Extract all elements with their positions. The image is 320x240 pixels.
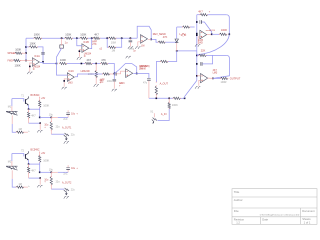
svg-text:x2: x2 bbox=[99, 47, 102, 50]
diode D1 bbox=[175, 39, 178, 42]
svg-text:10u: 10u bbox=[49, 169, 54, 172]
wire to cap bbox=[110, 73, 114, 75]
svg-text:BC549C: BC549C bbox=[31, 149, 40, 152]
svg-text:A_OUT1: A_OUT1 bbox=[62, 127, 72, 130]
junction op5 out bbox=[150, 39, 152, 41]
svg-text:1M: 1M bbox=[139, 68, 142, 71]
ground block1 bbox=[39, 123, 41, 130]
capacitor C1 feedback op1 bbox=[41, 51, 45, 53]
wire op7 plus ground bbox=[199, 80, 201, 85]
rect loop with resistor bbox=[177, 26, 183, 28]
svg-text:22u: 22u bbox=[56, 126, 61, 129]
piezo leads bbox=[11, 99, 13, 107]
svg-text:100K: 100K bbox=[43, 104, 49, 108]
svg-text:4K7: 4K7 bbox=[31, 114, 36, 117]
wire op3 plus ground bbox=[64, 79, 67, 87]
svg-text:+9V: +9V bbox=[41, 153, 46, 155]
wire op7 out bbox=[208, 77, 213, 79]
ground bbox=[62, 87, 67, 89]
ground block2 bbox=[39, 178, 41, 185]
svg-text:Title: Title bbox=[234, 190, 240, 194]
capacitor 10u out block2 bbox=[67, 170, 69, 173]
wire stage B right corner bbox=[213, 55, 229, 78]
svg-text:REV_SEND: REV_SEND bbox=[153, 33, 166, 36]
svg-text:1M: 1M bbox=[18, 183, 21, 186]
junction op4 out bbox=[136, 73, 138, 75]
svg-text:File: File bbox=[234, 209, 239, 213]
svg-text:FWD: FWD bbox=[8, 61, 14, 63]
pin mark bbox=[155, 81, 158, 84]
wire op6 plus ground bbox=[198, 37, 200, 44]
wire op5 feedback loop bbox=[137, 26, 151, 39]
op-amp U2B bbox=[200, 30, 207, 39]
vertical bus reverb return bbox=[155, 86, 157, 95]
svg-text:100K: 100K bbox=[65, 33, 71, 37]
svg-text:1.2: 1.2 bbox=[236, 221, 240, 225]
op-amp U1A bbox=[32, 58, 39, 67]
bus junctions bbox=[196, 21, 198, 23]
svg-text:100n: 100n bbox=[107, 80, 113, 83]
title block row lines bbox=[232, 196, 317, 198]
svg-text:D: D bbox=[84, 55, 86, 58]
svg-text:100K: 100K bbox=[43, 159, 49, 163]
ground jack block2 bbox=[64, 197, 69, 199]
svg-text:LM3: LM3 bbox=[120, 82, 125, 85]
svg-text:100K: 100K bbox=[30, 41, 36, 45]
resistor R22 stage B feedback bbox=[197, 54, 199, 56]
wire op7 minus stub bbox=[197, 75, 201, 77]
svg-text:1M: 1M bbox=[18, 128, 21, 131]
svg-text:BC549C: BC549C bbox=[31, 94, 40, 97]
wire stage A to stage B curve bbox=[197, 34, 230, 55]
transistor T1 BC549 bbox=[24, 99, 26, 104]
svg-text:1 of 1: 1 of 1 bbox=[304, 220, 311, 224]
connector jack block2 bbox=[64, 188, 69, 192]
svg-text:100K: 100K bbox=[60, 58, 66, 62]
svg-text:LM3: LM3 bbox=[213, 72, 218, 75]
piezo leads bbox=[11, 154, 13, 162]
capacitor C2 box bbox=[61, 38, 63, 45]
svg-text:X1: X1 bbox=[150, 111, 154, 114]
svg-text:10u: 10u bbox=[71, 112, 76, 115]
svg-text:T1: T1 bbox=[21, 96, 24, 98]
ground jack block1 bbox=[64, 142, 69, 144]
ground stage B bbox=[195, 87, 200, 89]
svg-text:LM3: LM3 bbox=[68, 82, 73, 85]
junction reverb column bbox=[176, 50, 178, 52]
wire feedback op1 y46.9 bbox=[26, 46, 29, 48]
capacitor 10u out block1 bbox=[67, 115, 69, 118]
svg-text:A_OUT2: A_OUT2 bbox=[62, 182, 72, 185]
svg-text:+9V: +9V bbox=[41, 98, 46, 100]
stage bus vertical bbox=[196, 15, 198, 81]
wire op3 minus bbox=[57, 64, 68, 76]
ground op5 bbox=[138, 42, 141, 46]
junction collector node block2 bbox=[39, 172, 41, 174]
capacitor C7 stage A bbox=[199, 20, 201, 24]
svg-text:100K: 100K bbox=[34, 33, 40, 37]
op-amp U1C bbox=[67, 73, 74, 82]
wire run5 bbox=[149, 97, 173, 99]
wire op4 feedback diagonal bbox=[114, 64, 136, 74]
svg-text:27K: 27K bbox=[92, 43, 97, 46]
resistor R17 bbox=[103, 73, 110, 75]
ground bbox=[94, 85, 99, 87]
capacitor C6 electrolytic bbox=[147, 78, 151, 80]
svg-text:47K: 47K bbox=[101, 58, 106, 62]
transistor T2 BC549 bbox=[24, 154, 26, 159]
junction op6 out bbox=[211, 34, 213, 36]
svg-text:10u: 10u bbox=[49, 114, 54, 117]
wire C6 down bbox=[148, 81, 150, 99]
svg-text:1M: 1M bbox=[112, 49, 116, 53]
resistor R16 100K vertical to ground bbox=[95, 64, 97, 71]
svg-text:L_PU: L_PU bbox=[179, 33, 185, 36]
ground bbox=[112, 89, 117, 91]
op-amp U1A ground lead bbox=[30, 63, 33, 72]
resistor R12 1M bottom bbox=[109, 46, 116, 48]
wire op4 out bbox=[133, 74, 149, 79]
wire C2 to run2 bbox=[57, 48, 62, 63]
wire stage A right corner bbox=[226, 15, 229, 35]
svg-text:22u: 22u bbox=[71, 189, 76, 191]
svg-text:T2: T2 bbox=[21, 151, 24, 153]
title block frame bbox=[232, 189, 317, 225]
svg-text:Date: Date bbox=[262, 217, 268, 221]
junction op1 output bbox=[42, 61, 44, 63]
resistor R15 loop bbox=[183, 26, 190, 28]
svg-text:+: + bbox=[44, 182, 46, 184]
connector jack block1 bbox=[64, 133, 69, 137]
svg-text:4K7: 4K7 bbox=[94, 33, 99, 37]
junction bus stage A bbox=[196, 34, 198, 36]
resistor R20 stage A feedback bbox=[197, 14, 200, 16]
svg-text:4K7: 4K7 bbox=[31, 169, 36, 172]
svg-text:A_OUT: A_OUT bbox=[160, 83, 169, 86]
wire op2 plus to ground bbox=[79, 50, 82, 57]
ground bbox=[27, 72, 32, 74]
junction plus input bbox=[29, 66, 31, 68]
svg-text:100K: 100K bbox=[15, 64, 21, 68]
svg-text:Author: Author bbox=[234, 198, 243, 202]
svg-text:LM324D: LM324D bbox=[81, 70, 90, 73]
svg-text:+: + bbox=[209, 10, 211, 13]
resistor R13 47K bbox=[158, 41, 165, 43]
ground stage A bbox=[195, 45, 200, 47]
op-amp U2C bbox=[201, 74, 208, 83]
resistor 100K collector block1 bbox=[39, 97, 41, 100]
svg-text:10M: 10M bbox=[111, 40, 116, 44]
resistor R23 output 100R bbox=[221, 77, 228, 79]
junction bbox=[63, 80, 65, 82]
capacitor C8 stage B bbox=[199, 62, 201, 66]
svg-text:100K: 100K bbox=[15, 48, 21, 52]
junction collector node block1 bbox=[39, 117, 41, 119]
svg-text:D:\DOC\Eagle\monacor 1.0\monac: D:\DOC\Eagle\monacor 1.0\monacor.brd bbox=[260, 213, 300, 216]
ground bbox=[128, 47, 133, 49]
resistor vertical out block2 bbox=[50, 172, 52, 176]
op-amp U2A bbox=[141, 35, 148, 44]
node input bus bbox=[25, 38, 27, 60]
ground floating above op4 bbox=[126, 56, 131, 58]
input block 2 top wire bbox=[12, 154, 24, 157]
svg-text:100R: 100R bbox=[221, 29, 227, 32]
wire collector out block1 bbox=[40, 116, 52, 118]
wire op2 output up bbox=[90, 38, 92, 48]
svg-text:D: D bbox=[33, 68, 35, 71]
wire op5 out jog bbox=[148, 38, 151, 40]
svg-text:22K: 22K bbox=[201, 49, 206, 52]
resistor vertical out block1 bbox=[50, 117, 52, 121]
svg-text:1n: 1n bbox=[133, 50, 136, 53]
wire bottom block1 bbox=[51, 133, 64, 135]
junction dots run1 bbox=[61, 37, 63, 39]
resistor 100K collector block2 bbox=[39, 152, 41, 155]
junction bbox=[79, 50, 81, 52]
junction run5 bbox=[168, 98, 170, 100]
svg-text:1u: 1u bbox=[65, 41, 68, 44]
resistor 4K7 block2 bbox=[27, 167, 29, 173]
wire op2 minus input bbox=[77, 38, 82, 46]
svg-text:100K: 100K bbox=[172, 103, 178, 107]
wire bottom block2 bbox=[51, 188, 64, 190]
wire collector out block2 bbox=[40, 171, 52, 173]
capacitor C4 bbox=[114, 72, 116, 76]
title block column lines bbox=[299, 208, 301, 224]
jack arrow block2 bbox=[65, 192, 67, 195]
svg-text:IC1C: IC1C bbox=[68, 70, 74, 73]
wire run1 top bbox=[26, 37, 34, 39]
emitter chain block1 bbox=[28, 105, 30, 109]
svg-text:+: + bbox=[44, 127, 46, 129]
svg-text:M2: M2 bbox=[8, 161, 12, 164]
svg-text:b: b bbox=[28, 186, 30, 188]
capacitor C5 to ground bbox=[113, 74, 115, 79]
svg-text:2xC: 2xC bbox=[63, 119, 67, 121]
resistor 1M block2 bbox=[16, 186, 24, 188]
resistor R21 stage A output bbox=[212, 33, 220, 35]
resistor R14 bbox=[160, 60, 168, 62]
svg-text:IC1B: IC1B bbox=[83, 41, 89, 44]
emitter chain block2 bbox=[28, 160, 30, 164]
svg-text:A_IN: A_IN bbox=[161, 113, 167, 116]
svg-text:47u: 47u bbox=[143, 82, 148, 85]
svg-text:mon4226: mon4226 bbox=[206, 30, 216, 32]
svg-text:47K: 47K bbox=[163, 36, 168, 39]
svg-text:M1: M1 bbox=[8, 106, 12, 109]
wire to reverb send bbox=[165, 41, 177, 43]
svg-text:b: b bbox=[28, 131, 30, 133]
ground bbox=[77, 58, 82, 60]
svg-text:+: + bbox=[76, 112, 78, 115]
svg-text:100K: 100K bbox=[80, 33, 86, 37]
svg-text:Document: Document bbox=[302, 209, 315, 213]
junction N1 bbox=[114, 73, 116, 75]
svg-text:LM: LM bbox=[141, 45, 144, 48]
svg-text:24D: 24D bbox=[198, 41, 203, 44]
svg-text:22u: 22u bbox=[71, 134, 76, 136]
svg-text:100R: 100R bbox=[221, 81, 227, 84]
svg-text:4K7: 4K7 bbox=[198, 10, 203, 13]
wire run y61.5 reverb drive bbox=[168, 51, 177, 62]
wire cap to op4 minus bbox=[116, 71, 125, 74]
input block 1 top wire bbox=[12, 99, 24, 102]
svg-text:+: + bbox=[76, 167, 78, 170]
junction bbox=[25, 46, 27, 48]
svg-text:OUTPUT: OUTPUT bbox=[230, 76, 241, 80]
op-amp U1B bbox=[82, 44, 89, 53]
junction op7 out bbox=[212, 78, 214, 80]
op-amp U1D bbox=[126, 69, 133, 78]
wire diagonal to stage bus bbox=[185, 81, 197, 99]
wire run y50.9 to bus bbox=[177, 50, 197, 52]
svg-text:22u: 22u bbox=[56, 181, 61, 184]
junction dots run2 bbox=[56, 63, 58, 65]
svg-text:10u: 10u bbox=[71, 167, 76, 170]
svg-text:2xC: 2xC bbox=[63, 174, 67, 176]
resistor R19 100K vertical bbox=[168, 98, 170, 102]
resistor 1M block1 bbox=[16, 131, 24, 133]
jack arrow block1 bbox=[65, 137, 67, 140]
resistor 4K7 block1 bbox=[27, 112, 29, 118]
resistor R11 10M top bbox=[109, 37, 117, 39]
wire run2 bbox=[40, 63, 57, 64]
svg-text:IC1A: IC1A bbox=[34, 55, 40, 58]
capacitor C3 to ground bbox=[129, 38, 131, 40]
svg-text:4K7: 4K7 bbox=[87, 58, 92, 62]
parallel resistor pair run1 bbox=[107, 38, 108, 47]
wire op3 out run3 bbox=[75, 74, 103, 77]
svg-text:FC: FC bbox=[100, 81, 103, 84]
wire op6 out bbox=[207, 33, 212, 35]
resistor R18 bbox=[173, 97, 180, 99]
